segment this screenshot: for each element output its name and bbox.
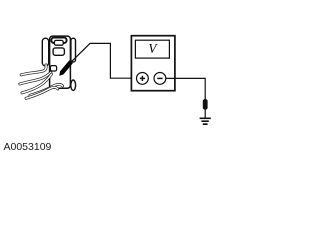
voltmeter V1 box bbox=[131, 36, 175, 91]
figure number label bbox=[4, 141, 52, 153]
positive terminal bbox=[137, 73, 149, 85]
connector C1 body bbox=[50, 36, 71, 88]
meter positive lead wire bbox=[70, 43, 136, 78]
connector left wing bbox=[42, 38, 48, 66]
meter negative lead wire bbox=[166, 78, 205, 99]
wire W1 bbox=[21, 65, 46, 75]
connector right wing bbox=[71, 38, 76, 62]
negative terminal bbox=[154, 73, 166, 85]
voltmeter display window bbox=[135, 40, 169, 58]
connector latch tab bbox=[54, 40, 63, 45]
connector cavity rect bbox=[53, 48, 64, 55]
connector top cap bbox=[51, 38, 66, 43]
ground bar 1 bbox=[200, 118, 211, 120]
ground lead stub bbox=[204, 110, 206, 118]
ground probe plug bbox=[203, 98, 208, 110]
connector lower terminal rect bbox=[50, 66, 56, 71]
wire W5 bbox=[30, 84, 63, 95]
ground bar 3 bbox=[203, 123, 208, 125]
ground bar 2 bbox=[201, 120, 208, 122]
test probe tip at connector bbox=[60, 61, 73, 75]
connector bottom-right knob bbox=[71, 80, 76, 90]
wire W3 bbox=[22, 74, 52, 93]
wire W4 bbox=[26, 87, 58, 98]
wire W2 bbox=[20, 72, 51, 84]
